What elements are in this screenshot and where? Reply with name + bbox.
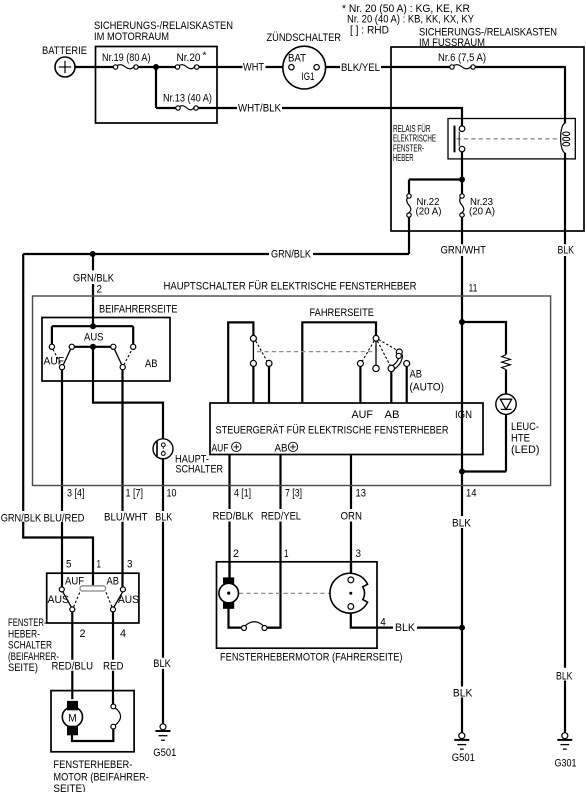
svg-text:BLK: BLK	[395, 622, 415, 634]
svg-text:IM MOTORRAUM: IM MOTORRAUM	[94, 31, 169, 43]
svg-text:Nr.20: Nr.20	[177, 52, 201, 64]
svg-text:SCHALTER: SCHALTER	[8, 640, 52, 652]
svg-text:AUS: AUS	[84, 332, 104, 344]
svg-text:1 [7]: 1 [7]	[126, 488, 144, 500]
svg-text:HEBER-: HEBER-	[8, 629, 40, 641]
svg-text:GRN/BLK: GRN/BLK	[1, 512, 42, 524]
svg-text:BEIFAHRERSEITE: BEIFAHRERSEITE	[99, 304, 178, 316]
svg-text:AUF: AUF	[352, 409, 374, 421]
svg-text:G501: G501	[452, 752, 475, 764]
svg-text:2: 2	[97, 283, 103, 295]
svg-text:AB: AB	[275, 443, 288, 455]
svg-text:AUF: AUF	[44, 356, 65, 368]
svg-text:14: 14	[466, 488, 477, 500]
svg-text:BLK: BLK	[453, 688, 473, 700]
svg-text:FENSTERHEBERMOTOR (FAHRERSEITE: FENSTERHEBERMOTOR (FAHRERSEITE)	[220, 652, 403, 664]
svg-text:AUF: AUF	[212, 443, 229, 455]
svg-text:HTE: HTE	[511, 433, 530, 445]
svg-text:LEUC-: LEUC-	[511, 421, 539, 433]
svg-text:G501: G501	[153, 747, 176, 759]
svg-text:2: 2	[233, 548, 239, 560]
svg-text:*: *	[203, 51, 207, 62]
svg-text:FENSTER-: FENSTER-	[8, 617, 47, 629]
svg-text:BLU/WHT: BLU/WHT	[104, 511, 148, 523]
svg-text:SEITE): SEITE)	[8, 662, 38, 674]
svg-text:SCHALTER: SCHALTER	[176, 464, 224, 476]
svg-text:10: 10	[167, 488, 177, 500]
svg-text:1: 1	[284, 548, 289, 560]
svg-text:BAT: BAT	[288, 53, 306, 65]
svg-text:STEUERGERÄT FÜR ELEKTRISCHE FE: STEUERGERÄT FÜR ELEKTRISCHE FENSTERHEBER	[216, 424, 449, 436]
svg-text:[ ] : RHD: [ ] : RHD	[350, 25, 389, 37]
svg-text:4 [1]: 4 [1]	[234, 488, 251, 500]
svg-text:GRN/WHT: GRN/WHT	[441, 244, 487, 256]
svg-text:7 [3]: 7 [3]	[285, 488, 302, 500]
svg-text:11: 11	[469, 283, 478, 295]
svg-text:WHT/BLK: WHT/BLK	[238, 102, 281, 114]
svg-text:(20 A): (20 A)	[469, 207, 495, 218]
svg-text:(20 A): (20 A)	[416, 207, 442, 218]
svg-text:IM FUSSRAUM: IM FUSSRAUM	[419, 37, 485, 49]
svg-text:Nr.13 (40 A): Nr.13 (40 A)	[163, 93, 212, 105]
svg-text:Nr.6 (7,5 A): Nr.6 (7,5 A)	[438, 52, 486, 64]
svg-text:BLK: BLK	[558, 245, 575, 257]
svg-text:G301: G301	[555, 758, 577, 770]
svg-text:BLK/YEL: BLK/YEL	[341, 62, 380, 74]
svg-text:AUF: AUF	[65, 576, 84, 588]
svg-text:GRN/BLK: GRN/BLK	[73, 272, 114, 284]
svg-text:4: 4	[380, 616, 386, 628]
svg-text:AUS: AUS	[48, 594, 70, 606]
svg-text:5: 5	[66, 559, 72, 571]
svg-text:BLK: BLK	[556, 670, 573, 682]
svg-text:SEITE): SEITE)	[53, 783, 85, 792]
svg-text:BLK: BLK	[153, 658, 171, 670]
svg-text:3: 3	[127, 559, 133, 571]
svg-text:HAUPTSCHALTER FÜR ELEKTRISCHE: HAUPTSCHALTER FÜR ELEKTRISCHE FENSTERHEB…	[164, 281, 417, 293]
svg-text:AB: AB	[410, 369, 423, 381]
svg-text:1: 1	[97, 559, 102, 571]
svg-text:WHT: WHT	[243, 62, 264, 74]
svg-text:ORN: ORN	[341, 511, 363, 523]
svg-text:BLK: BLK	[452, 518, 471, 530]
svg-text:IG1: IG1	[302, 71, 315, 83]
svg-text:AB: AB	[145, 358, 158, 370]
svg-text:Nr.19 (80 A): Nr.19 (80 A)	[102, 52, 151, 64]
svg-text:GRN/BLK: GRN/BLK	[271, 249, 311, 261]
svg-text:AUS: AUS	[118, 594, 139, 606]
svg-text:BLU/RED: BLU/RED	[44, 512, 85, 524]
svg-text:AB: AB	[107, 576, 120, 588]
svg-text:2: 2	[80, 628, 86, 640]
svg-text:BATTERIE: BATTERIE	[42, 45, 87, 57]
svg-text:RED/BLK: RED/BLK	[213, 511, 254, 523]
svg-text:4: 4	[120, 628, 126, 640]
svg-text:3 [4]: 3 [4]	[67, 488, 85, 500]
svg-text:(LED): (LED)	[511, 444, 540, 456]
svg-text:(AUTO): (AUTO)	[410, 381, 445, 393]
svg-text:RED: RED	[103, 661, 124, 673]
svg-text:ZÜNDSCHALTER: ZÜNDSCHALTER	[267, 32, 342, 44]
svg-text:RED/BLU: RED/BLU	[52, 661, 94, 673]
svg-text:FAHRERSEITE: FAHRERSEITE	[310, 307, 375, 319]
svg-text:BLK: BLK	[155, 511, 172, 523]
svg-text:IGN: IGN	[455, 409, 472, 421]
svg-text:AB: AB	[385, 409, 400, 421]
svg-text:13: 13	[356, 488, 367, 500]
svg-text:3: 3	[356, 548, 362, 560]
svg-text:RED/YEL: RED/YEL	[261, 511, 301, 523]
svg-text:M: M	[68, 712, 77, 724]
svg-text:HEBER: HEBER	[393, 153, 414, 164]
svg-text:FENSTERHEBER-: FENSTERHEBER-	[53, 759, 132, 771]
